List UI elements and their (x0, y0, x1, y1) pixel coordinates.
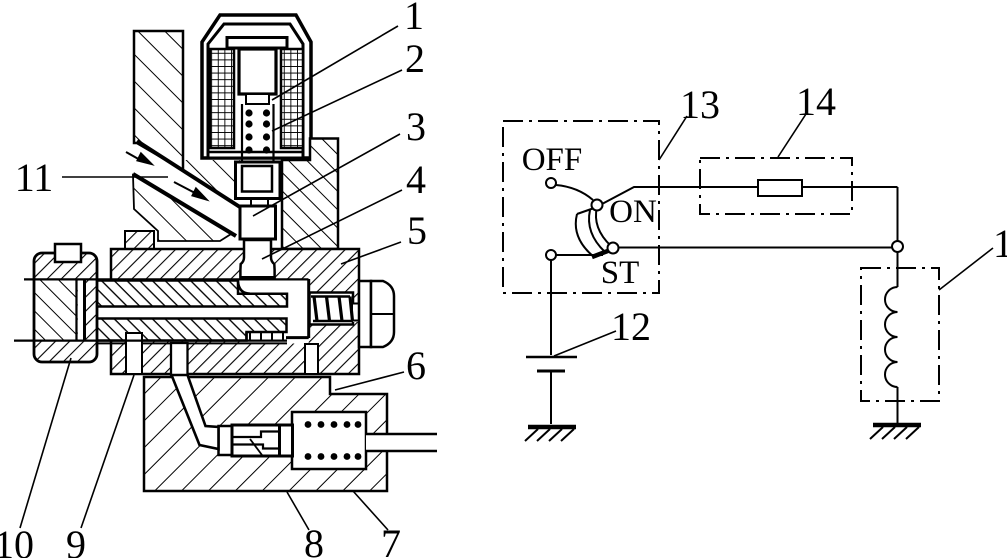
svg-text:ST: ST (601, 255, 640, 291)
svg-text:5: 5 (407, 208, 427, 253)
svg-text:11: 11 (15, 155, 54, 200)
svg-text:4: 4 (406, 157, 426, 202)
svg-text:1: 1 (993, 221, 1007, 266)
svg-text:3: 3 (406, 104, 426, 149)
svg-text:8: 8 (304, 521, 324, 558)
svg-text:OFF: OFF (522, 142, 583, 178)
svg-text:7: 7 (381, 521, 401, 558)
svg-text:14: 14 (796, 79, 836, 124)
svg-text:1: 1 (404, 0, 424, 38)
svg-text:2: 2 (405, 36, 425, 81)
svg-text:ON: ON (609, 194, 657, 230)
svg-text:9: 9 (66, 522, 86, 558)
svg-text:10: 10 (0, 522, 34, 558)
svg-text:13: 13 (680, 82, 720, 127)
svg-text:6: 6 (406, 343, 426, 388)
svg-text:12: 12 (611, 304, 651, 349)
